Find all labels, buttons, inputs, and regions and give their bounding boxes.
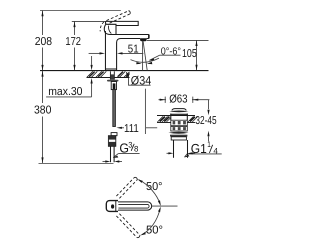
svg-text:max.30: max.30 (48, 86, 82, 98)
rotated handle upper (dashed) (116, 178, 137, 199)
spout underside + front corner + front face (117, 39, 141, 71)
handle lever bar outline (116, 202, 152, 210)
drain counter top line (157, 115, 195, 117)
arrow G114 left (168, 152, 173, 154)
label G 3/8 (119, 140, 139, 155)
Ø63 extension ticks (164, 97, 166, 103)
svg-text:G1: G1 (191, 141, 207, 156)
arrow 105 bottom (195, 65, 197, 71)
spout tip edge (bold) (148, 35, 150, 39)
label 0°-6° underline + leader (160, 54, 181, 56)
arrow 32-45 up (207, 131, 209, 137)
max.30 lower witness + leader (91, 84, 93, 97)
rotated handle upper tip (134, 177, 137, 179)
arrow 51 right (117, 52, 123, 54)
arrow 51 left (100, 52, 106, 54)
drain body teeth row 2 (171, 126, 188, 131)
hose lower nut G3/8 (108, 136, 115, 147)
arrow G114 leader (184, 155, 189, 158)
dimension 111 line left (122, 127, 125, 129)
dimension 111 extension line (144, 89, 146, 134)
dimension 32-45 line upper (208, 100, 210, 110)
dimension 111 line right (146, 127, 157, 129)
arrow Ø63 right (193, 99, 199, 101)
handle cap (rounded square) (106, 201, 118, 212)
dimension 380 line (42, 71, 44, 103)
arrow 111 left (116, 127, 122, 129)
max.30 upper witness line (91, 56, 93, 65)
lever swing arc (dashed) (100, 22, 104, 32)
G3/8 underline + leader (118, 153, 139, 155)
arrow 380 bottom (41, 157, 43, 163)
stream swing arc with arrows (131, 58, 160, 62)
arrow 0-6 leader (149, 58, 155, 60)
label G 1 1/4 (191, 140, 219, 156)
drain counter bottom line (157, 122, 171, 124)
drain tube G1 1/4 (173, 140, 175, 158)
water stream 6° line (143, 41, 147, 70)
arrow G114 right (188, 152, 193, 154)
raised lever tip (128, 11, 130, 14)
drain body teeth row 1 (171, 120, 188, 126)
counter section bottom line (87, 77, 130, 79)
arrow G38 leader (113, 156, 119, 158)
cartridge dome left edge (104, 24, 110, 34)
spout top edge (110, 34, 149, 36)
dimension Ø63 line (159, 99, 167, 101)
svg-text:8: 8 (134, 145, 139, 154)
counter hatching (87, 71, 130, 77)
bottom tube G3/8 (110, 146, 112, 162)
column back edge (104, 31, 106, 71)
dimension 105 line (196, 40, 198, 70)
hose adapter (111, 82, 116, 90)
arrow 208 top (41, 11, 43, 17)
rotated handle lower tip (137, 235, 140, 237)
Ø34 leader (126, 72, 150, 85)
arrow max30 down (91, 65, 93, 71)
arrow 208 bottom (41, 65, 43, 71)
drain cap rim (bold lens) (169, 111, 188, 113)
svg-text:172: 172 (65, 36, 81, 48)
cartridge post right edge (115, 26, 117, 35)
dimension 51 line left (89, 52, 100, 54)
arrow 105 top (195, 41, 197, 47)
arrow G38 right (114, 160, 119, 162)
svg-text:208: 208 (35, 36, 52, 48)
dimension 172 line (74, 21, 76, 35)
arrow Ø63 left (160, 99, 166, 101)
spout underside right of aerator (147, 38, 149, 40)
arrow 172 top (73, 22, 75, 28)
mounting nut bar (107, 80, 119, 82)
svg-text:32-45: 32-45 (195, 115, 216, 127)
drain cap dome (172, 109, 186, 111)
svg-text:Ø63: Ø63 (169, 93, 187, 105)
svg-text:111: 111 (124, 123, 139, 135)
svg-text:Ø34: Ø34 (131, 73, 152, 87)
base ring line (105, 68, 117, 70)
svg-text:105: 105 (182, 48, 197, 60)
svg-text:50°: 50° (146, 181, 163, 193)
lever raised position (dashed) (106, 11, 130, 23)
drain body through counter (170, 114, 172, 121)
dimension 208 line (42, 11, 44, 36)
drain dark band (170, 135, 187, 137)
drain cap washer line (170, 113, 187, 115)
svg-text:0°-6°: 0°-6° (161, 46, 181, 57)
arrow 32-45 down (207, 110, 209, 116)
svg-text:1: 1 (207, 140, 211, 149)
handle cap junction line (115, 201, 117, 212)
arrow max30 up (91, 78, 93, 84)
dimension 51 line right (122, 52, 143, 54)
drain locknut (bold lens) (168, 132, 188, 134)
handle screw (111, 204, 114, 208)
svg-text:4: 4 (213, 146, 218, 155)
svg-text:380: 380 (34, 105, 51, 117)
arrow 172 bottom (73, 65, 75, 71)
drain counter hatching (158, 116, 198, 122)
dimension 380 extension line bottom (39, 163, 114, 165)
G1 1/4 underline + leader (187, 153, 222, 155)
arrow G38 left (105, 160, 110, 162)
dimension 32-45 line lower (208, 136, 210, 141)
lower 50° arc (142, 208, 160, 234)
svg-text:51: 51 (128, 43, 139, 55)
G1 1/4 width arrows tails (167, 152, 171, 154)
dimension 208 extension line top (40, 10, 121, 12)
handle inner slot (118, 204, 149, 208)
upper 50° arc (139, 180, 160, 204)
drain washer (171, 137, 186, 140)
rotated handle lower (dashed) (116, 214, 140, 238)
G3/8 width arrows tails (103, 161, 108, 163)
label Ø63 (white-backed) (169, 96, 188, 104)
dimension 172 extension line (72, 20, 106, 22)
aerator (140, 38, 147, 41)
lever (side view) (106, 21, 139, 25)
flexible hose (113, 90, 116, 127)
counter top line (40, 70, 209, 72)
dimension 105 extension line (147, 39, 209, 41)
handle axis line (152, 205, 178, 207)
arrow Ø34 leader (126, 72, 129, 77)
hose lower ferrule (111, 133, 117, 136)
shank dark top below counter (109, 71, 111, 79)
water stream 0° line (142, 41, 144, 71)
arrow 380 top (41, 71, 43, 77)
